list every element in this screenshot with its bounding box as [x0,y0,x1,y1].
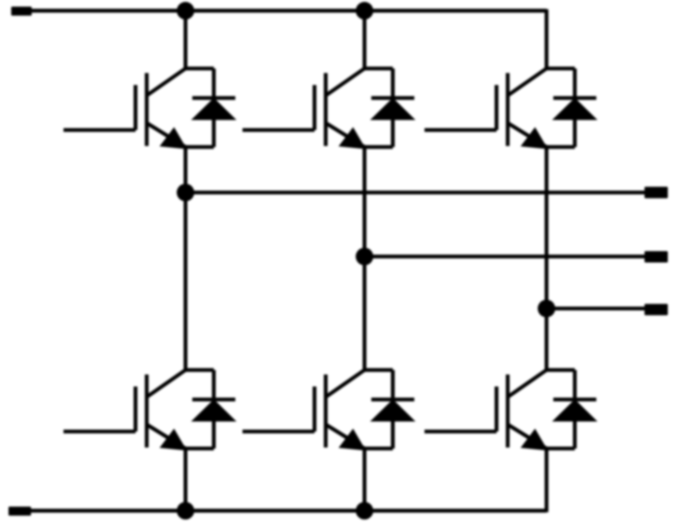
diode D3 (freewheel) [365,69,415,148]
transistor Q3 (IGBT) [243,69,366,149]
phase B output terminal [645,251,668,262]
wire: phase C output [547,307,645,311]
wire: leg1 drop from DC+ bus [184,11,188,69]
wire: Q6 emitter to DC- bus [545,449,549,513]
junction: phase C node [538,300,556,318]
diode D6 (freewheel) [547,370,597,449]
DC- input terminal [9,507,32,516]
wire: leg3 emitter to phase C node [545,147,549,309]
junction: DC- bus / leg2 [356,502,374,520]
wire: leg1 phase A node to Q2 collector [184,193,188,371]
junction: DC- bus / leg1 [177,502,195,520]
junction: phase B node [356,248,374,266]
phase A output terminal [645,187,668,198]
junction: DC+ bus / leg1 [177,2,195,20]
DC+ input terminal [11,7,32,16]
transistor Q2 (IGBT) [64,370,187,450]
wire: Q4 emitter to DC- bus [363,449,367,511]
diode D1 (freewheel) [186,69,236,148]
wire: leg2 drop from DC+ bus [363,11,367,69]
wire: phase B output [365,255,645,259]
wire: top DC+ bus [31,9,547,13]
transistor Q6 (IGBT) [425,370,548,450]
wire: leg2 emitter to phase B node [363,147,367,257]
wire: leg3 drop from DC+ bus [545,9,549,68]
transistor Q4 (IGBT) [243,370,366,450]
junction: phase A node [177,184,195,202]
phase C output terminal [645,304,668,315]
junction: DC+ bus / leg2 [356,2,374,20]
transistor Q5 (IGBT) [425,69,548,149]
wire: bottom DC- bus [31,509,547,513]
wire: leg1 emitter to phase A node [184,147,188,193]
wire: Q2 emitter to DC- bus [184,449,188,511]
diode D4 (freewheel) [365,370,415,449]
wire: leg2 phase B node to Q4 collector [363,257,367,371]
transistor Q1 (IGBT) [64,69,187,149]
wire: leg3 phase C node to Q6 collector [545,309,549,371]
diode D5 (freewheel) [547,69,597,148]
diode D2 (freewheel) [186,370,236,449]
wire: phase A output [186,191,645,195]
